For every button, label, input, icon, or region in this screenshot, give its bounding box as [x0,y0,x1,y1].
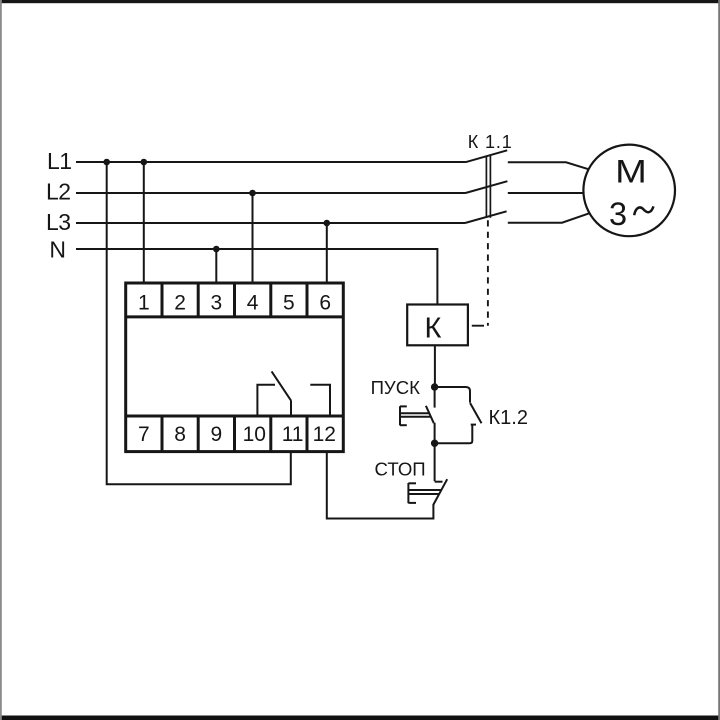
svg-text:11: 11 [282,423,304,446]
svg-text:ПУСК: ПУСК [371,377,421,398]
svg-text:К: К [425,313,442,345]
svg-text:СТОП: СТОП [375,458,426,479]
svg-text:M: M [615,153,647,189]
svg-text:6: 6 [319,292,331,315]
svg-text:3: 3 [211,292,223,315]
svg-text:8: 8 [174,423,186,446]
svg-text:3: 3 [609,196,627,232]
svg-text:К1.2: К1.2 [489,407,528,429]
svg-text:7: 7 [138,423,150,446]
svg-text:L2: L2 [46,179,71,205]
svg-text:12: 12 [313,423,336,446]
svg-text:N: N [49,236,66,262]
svg-text:5: 5 [283,292,295,315]
svg-text:L1: L1 [47,148,72,174]
svg-text:4: 4 [247,292,259,315]
svg-text:L3: L3 [46,209,71,235]
svg-text:9: 9 [211,423,223,446]
svg-text:2: 2 [174,292,186,315]
svg-text:10: 10 [243,423,266,446]
svg-text:1: 1 [138,292,150,315]
svg-text:К 1.1: К 1.1 [468,132,513,152]
